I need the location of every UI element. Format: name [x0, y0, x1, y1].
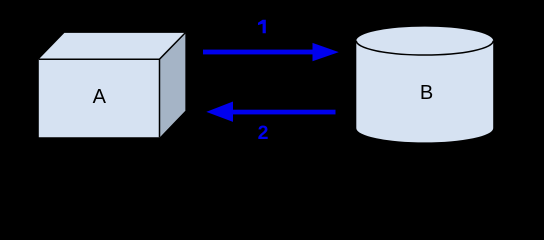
svg-text:2: 2 — [258, 122, 269, 144]
svg-text:A: A — [93, 86, 107, 108]
svg-text:B: B — [420, 82, 433, 104]
